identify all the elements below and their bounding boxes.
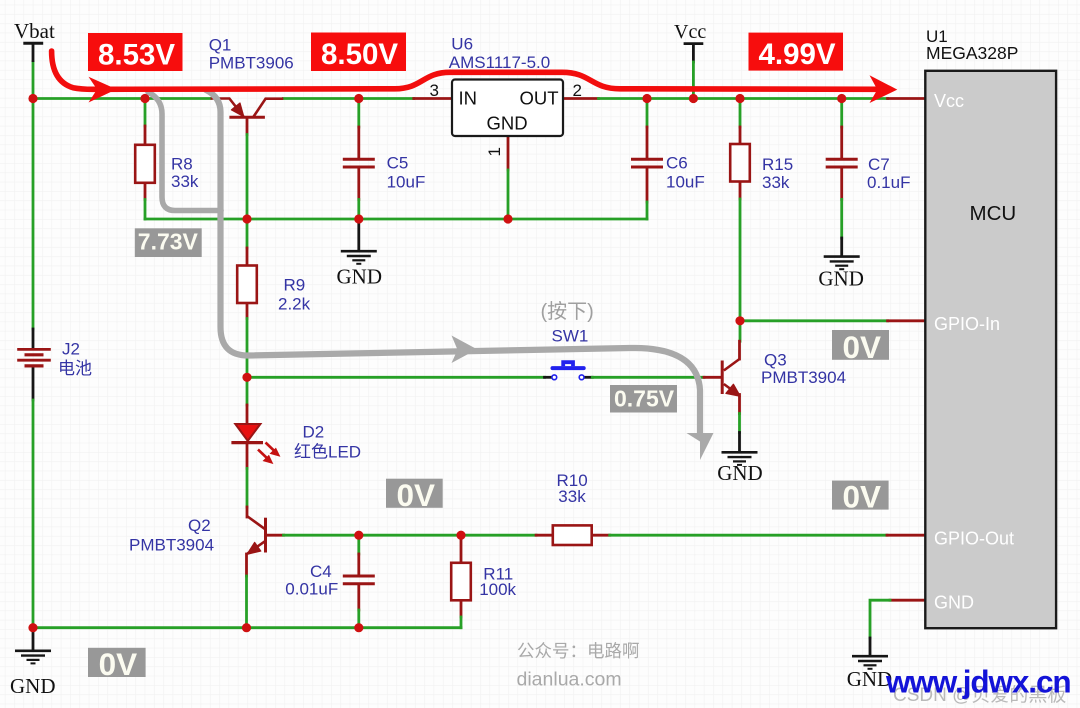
wire Q3 collector green	[739, 321, 742, 341]
gray current path long strand to SW1 and Q3	[206, 90, 700, 437]
wire Q3 gnd stub black	[738, 433, 741, 452]
resistor R15 33k	[730, 144, 750, 182]
resistor R11 100k	[451, 563, 471, 601]
wire Q3 base stub dark red	[704, 376, 722, 379]
wire C6 bottom green corner	[646, 202, 649, 219]
voltage box 4.99V	[749, 33, 844, 71]
gray arrow mid path right	[452, 336, 478, 364]
capacitor C4 0.01uF	[343, 576, 375, 584]
svg-text:dianlua.com: dianlua.com	[517, 669, 622, 691]
ground symbol under Q3	[722, 452, 758, 465]
svg-text:0.1uF: 0.1uF	[867, 173, 910, 192]
ground symbol under C5	[341, 251, 377, 264]
wire C7 top green	[840, 99, 843, 128]
wire node 7.73V horizontal green	[145, 218, 647, 221]
wire battery column lower green	[32, 400, 35, 628]
wire main rail green Q1 collector to U6 IN	[283, 97, 414, 100]
wire C4 bottom dark red	[357, 585, 360, 610]
wire R11 bottom green corner	[460, 617, 463, 628]
svg-text:R9: R9	[284, 276, 306, 295]
svg-text:MEGA328P: MEGA328P	[926, 43, 1018, 63]
svg-text:J2: J2	[62, 340, 80, 359]
svg-text:33k: 33k	[558, 487, 586, 506]
junction dot C5 bottom	[354, 214, 363, 223]
voltage box 0V at GPIO-Out	[832, 481, 889, 510]
wire switch row green left	[247, 376, 545, 379]
wire switch row green right to Q3 base	[592, 376, 704, 379]
LED D2 light arrow 1	[258, 443, 280, 464]
svg-text:(按下): (按下)	[541, 300, 594, 323]
svg-text:0V: 0V	[843, 329, 882, 365]
svg-text:8.50V: 8.50V	[321, 38, 398, 71]
wire C5 top dark red	[357, 127, 360, 158]
svg-text:AMS1117-5.0: AMS1117-5.0	[449, 53, 550, 72]
junction dot GPIO-In node	[735, 316, 744, 325]
regulator U6 AMS1117-5.0 box	[452, 80, 563, 137]
junction dot U6 GND bottom	[503, 214, 512, 223]
svg-text:7.73V: 7.73V	[138, 229, 199, 255]
wire node to R9 green	[246, 219, 249, 248]
svg-text:GND: GND	[337, 265, 383, 289]
wire R15 bottom dark red	[739, 182, 742, 200]
wire MCU GPIO-Out pin stub	[887, 534, 925, 537]
transistor Q1 emitter arrow	[231, 103, 243, 117]
gray current path from R8 top into base node	[148, 92, 221, 211]
junction dot R8 top	[140, 94, 149, 103]
junction dot Vbat rail	[28, 94, 37, 103]
svg-text:8.53V: 8.53V	[98, 38, 175, 71]
wire R9 bottom dark red	[246, 303, 249, 319]
svg-text:GPIO-Out: GPIO-Out	[934, 529, 1014, 549]
junction dot C4 bottom	[354, 623, 363, 632]
wire R9 top dark red	[246, 248, 249, 266]
svg-text:GND: GND	[934, 593, 974, 613]
svg-text:0V: 0V	[843, 479, 882, 515]
wire R8 bottom green	[144, 200, 147, 220]
wire Vcc symbol black stub	[692, 44, 695, 62]
transistor Q3 emitter arrow	[726, 384, 740, 396]
transistor Q3 PMBT3904 (NPN)	[722, 359, 739, 396]
svg-text:GND: GND	[487, 113, 528, 134]
wire Q2 emitter dark red	[245, 554, 248, 576]
wire R9 bottom green	[246, 319, 249, 378]
wire U6 GND pin dark red	[507, 136, 510, 170]
wire C7 bottom dark red	[840, 168, 843, 199]
pushbutton SW1 terminals	[552, 375, 584, 380]
wire U6 IN pin stub	[414, 97, 452, 100]
junction dot R11 top	[456, 531, 465, 540]
wire main rail green OUT to MCU	[599, 97, 888, 100]
power bar Vcc	[684, 42, 704, 45]
power bar Vbat	[23, 42, 43, 45]
svg-text:R15: R15	[762, 155, 793, 174]
svg-text:33k: 33k	[171, 172, 199, 191]
wire battery bottom black	[32, 367, 35, 400]
svg-text:Q2: Q2	[188, 516, 211, 535]
svg-text:D2: D2	[303, 423, 325, 442]
junction dot node 7.73V at R9	[242, 214, 251, 223]
wire U6 OUT pin stub	[563, 97, 599, 100]
pushbutton SW1 bar and cap	[553, 362, 584, 368]
svg-text:红色LED: 红色LED	[294, 443, 361, 462]
ground symbol bottom left	[15, 651, 51, 664]
wire MCU Vcc pin stub	[888, 97, 926, 100]
svg-text:Q3: Q3	[764, 351, 787, 370]
svg-text:OUT: OUT	[520, 88, 559, 109]
voltage box 7.73V	[135, 228, 202, 257]
svg-text:C5: C5	[387, 154, 409, 173]
wire bottom rail green	[33, 626, 461, 629]
wire R15 bottom green to GPIO-In node	[739, 199, 742, 321]
wire Q3 emitter green	[738, 414, 741, 433]
resistor R10 33k horizontal	[553, 525, 592, 545]
wire MCU GND green corner	[870, 600, 890, 638]
junction dot C6 top	[642, 94, 651, 103]
wire main rail green Vbat to Q1 emitter	[33, 97, 211, 100]
resistor R8 33k	[135, 145, 155, 183]
svg-text:Vbat: Vbat	[14, 19, 55, 43]
svg-text:PMBT3906: PMBT3906	[209, 54, 294, 73]
wire battery top black	[32, 329, 35, 348]
svg-text:IN: IN	[459, 88, 478, 109]
wire Q2 base stub dark red	[266, 534, 284, 537]
MCU U1 MEGA328P box	[925, 71, 1056, 628]
wire R11 bottom dark red	[460, 600, 463, 617]
wire C7 top dark red	[840, 127, 843, 158]
voltage box 0V bottom left	[88, 648, 146, 677]
svg-text:U6: U6	[451, 35, 473, 54]
svg-text:C6: C6	[666, 154, 688, 173]
svg-text:R8: R8	[171, 155, 193, 174]
svg-text:Q1: Q1	[209, 36, 232, 55]
wire C5 gnd stub black	[357, 219, 360, 250]
svg-text:GND: GND	[10, 674, 56, 698]
svg-text:10uF: 10uF	[387, 173, 426, 192]
svg-text:C7: C7	[868, 155, 890, 174]
wire C4 bottom green	[357, 610, 360, 628]
svg-text:GPIO-In: GPIO-In	[934, 314, 1000, 334]
wire D2 to Q2 collector green	[246, 468, 249, 507]
wire Vcc to rail green	[692, 62, 695, 99]
junction dot Q2 emitter bottom	[242, 623, 251, 632]
junction dot battery gnd	[28, 623, 37, 632]
wire Q1 base to node green	[246, 135, 249, 220]
svg-text:0.01uF: 0.01uF	[285, 580, 338, 599]
LED D2 red triangle	[235, 424, 260, 441]
LED D2 light arrow 2	[258, 450, 269, 461]
wire Q2 emitter green to bottom rail	[245, 576, 248, 628]
voltage box 0V at C4	[386, 479, 443, 508]
junction dot C7 top	[837, 94, 846, 103]
ground symbol under C7	[824, 257, 860, 270]
transistor Q2 emitter arrow	[247, 542, 261, 554]
wire R8 top dark red	[144, 126, 147, 146]
capacitor C5 10uF	[343, 159, 375, 167]
voltage box 8.53V	[88, 33, 183, 71]
wire C4 top green	[357, 535, 360, 554]
wire D2 anode dark red	[246, 405, 249, 425]
junction dot R15 top	[735, 94, 744, 103]
svg-text:电池: 电池	[58, 359, 92, 378]
wire GPIO-Out row green left	[284, 534, 537, 537]
svg-text:2.2k: 2.2k	[278, 295, 311, 314]
svg-text:C4: C4	[310, 562, 332, 581]
junction dot Vcc	[689, 94, 698, 103]
wire R8 bottom dark red	[144, 183, 147, 200]
svg-text:PMBT3904: PMBT3904	[761, 368, 846, 387]
wire R10 right stub dark red	[592, 534, 610, 537]
junction dot C5 top	[354, 94, 363, 103]
capacitor C7 0.1uF	[826, 159, 858, 167]
wire C5 bottom green	[357, 200, 360, 220]
svg-text:100k: 100k	[479, 580, 516, 599]
wire SW1 left pin black	[545, 376, 552, 379]
junction dot C4 top	[354, 531, 363, 540]
wire R10 left stub dark red	[536, 534, 553, 537]
wire R15 top dark red	[739, 127, 742, 145]
wire R15 top green	[739, 99, 742, 128]
red arrow at MCU Vcc	[870, 75, 898, 103]
wire battery column upper green	[32, 99, 35, 330]
wire R11 top dark red	[460, 535, 463, 563]
voltage box 0V at GPIO-In	[832, 330, 889, 360]
voltage box 0.75V	[610, 385, 677, 413]
wire MCU GND pin stub dark red	[890, 599, 925, 602]
svg-text:GND: GND	[717, 461, 763, 485]
svg-text:www.jdwx.cn: www.jdwx.cn	[885, 664, 1071, 700]
svg-text:Vcc: Vcc	[934, 91, 964, 111]
svg-text:0V: 0V	[397, 477, 436, 513]
junction dot switch row at R9	[242, 373, 251, 382]
svg-text:3: 3	[430, 81, 439, 100]
red arrow near Vbat	[89, 77, 117, 103]
wire C5 top green	[357, 99, 360, 128]
svg-text:Vcc: Vcc	[674, 21, 706, 43]
LED D2 cathode bar	[231, 441, 263, 444]
wire MCU GND black stub	[869, 638, 872, 656]
wire Q3 collector dark red	[738, 341, 741, 359]
wire Q3 emitter dark red	[738, 395, 741, 414]
capacitor C6 10uF	[631, 159, 663, 167]
svg-text:33k: 33k	[762, 173, 790, 192]
wire Q1 base lead dark red	[246, 118, 249, 135]
svg-text:PMBT3904: PMBT3904	[129, 536, 214, 555]
battery J2	[17, 349, 51, 366]
wire C6 bottom dark red	[646, 168, 649, 202]
resistor R9 2.2k	[237, 266, 257, 304]
wire C5 bottom dark red	[357, 168, 360, 199]
wire C7 gnd stub black	[840, 238, 843, 256]
svg-text:2: 2	[573, 81, 582, 100]
svg-text:4.99V: 4.99V	[759, 38, 836, 71]
svg-text:公众号：电路啊: 公众号：电路啊	[517, 641, 640, 661]
svg-text:SW1: SW1	[552, 327, 589, 346]
svg-text:10uF: 10uF	[666, 173, 705, 192]
wire GPIO-Out row green right	[610, 534, 887, 537]
wire SW1 right pin black	[584, 376, 592, 379]
transistor Q1 PMBT3906 (PNP, in series with rail)	[211, 99, 284, 118]
wire R8 top green	[144, 99, 147, 127]
svg-text:1: 1	[485, 147, 504, 156]
wire MCU GPIO-In pin stub	[888, 319, 926, 322]
red highlighted supply path	[52, 51, 882, 89]
wire C4 top dark red	[357, 554, 360, 576]
svg-text:0.75V: 0.75V	[614, 386, 675, 412]
svg-text:MCU: MCU	[970, 202, 1017, 225]
wire C6 top dark red	[646, 127, 649, 158]
wire U6 GND pin green	[507, 170, 510, 219]
gray arrow down at Q3	[687, 433, 714, 460]
transistor Q2 PMBT3904 (NPN mirrored)	[247, 516, 266, 554]
wire D2 anode green	[246, 377, 249, 405]
wire Vbat to rail green	[32, 62, 35, 99]
ground symbol under MCU GND	[852, 656, 888, 669]
wire D2 cathode dark red	[246, 442, 249, 468]
voltage box 8.50V	[311, 33, 406, 72]
wire C6 top green	[646, 99, 649, 128]
wire GPIO-In row green	[740, 319, 888, 322]
svg-text:0V: 0V	[99, 646, 138, 682]
wire bottom-left gnd stub black	[32, 628, 35, 650]
svg-text:GND: GND	[818, 267, 864, 291]
wire Q2 collector dark red	[246, 507, 249, 517]
wire C7 bottom green	[840, 199, 843, 238]
